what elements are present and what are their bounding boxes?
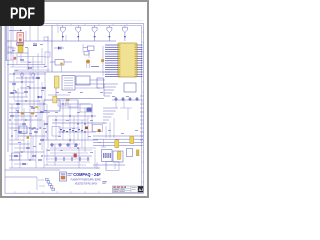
wire xyxy=(48,115,96,117)
IC U3 box xyxy=(76,76,90,85)
wire xyxy=(50,143,80,145)
wire vertical xyxy=(55,116,57,140)
wire xyxy=(9,112,50,114)
wire xyxy=(14,147,26,149)
wire vertical xyxy=(16,53,18,65)
wire xyxy=(23,108,25,152)
transistor Q7 cluster box xyxy=(50,60,72,66)
wire xyxy=(60,107,86,109)
wire vertical xyxy=(91,104,93,132)
svg-text:PLASMA/TFT POWER SUPPLY BOARD: PLASMA/TFT POWER SUPPLY BOARD xyxy=(71,178,101,181)
border grid ticks xyxy=(15,24,144,194)
wire vertical ladder stub xyxy=(105,126,107,138)
resistor ladder 1 xyxy=(104,84,118,96)
wire bus y98 xyxy=(57,98,104,100)
connector J2 bits xyxy=(46,178,55,190)
IC U7 box xyxy=(58,100,66,106)
wire xyxy=(50,147,96,149)
diode D5 (red) xyxy=(14,57,17,60)
transistor Q8 (small cup) xyxy=(20,72,24,80)
wire left vertical rail 2 xyxy=(10,26,12,60)
label text xyxy=(91,65,99,68)
wire xyxy=(115,100,117,108)
IC U5 box xyxy=(124,83,136,92)
capacitor small box 2 xyxy=(8,47,13,52)
connector J1 pin ticks (left edge) xyxy=(6,26,9,61)
svg-text:PDF: PDF xyxy=(10,6,35,23)
wire vertical xyxy=(29,25,31,41)
wire xyxy=(9,29,21,31)
regulator box VR1 xyxy=(102,150,113,162)
wire xyxy=(19,144,21,168)
resistor R12 (yellow tick) xyxy=(35,106,38,108)
wire xyxy=(44,155,92,157)
relay K1 (red box) xyxy=(17,33,24,43)
resistor ladder 2 xyxy=(103,108,118,123)
transistor Q5 (top row) xyxy=(122,25,127,41)
resistor R11 (orange) xyxy=(31,113,34,115)
wire vertical xyxy=(87,116,89,140)
wire xyxy=(20,87,46,89)
varistor RV1 (orange) xyxy=(86,60,89,63)
opto U9 (blue fill) xyxy=(87,108,92,112)
wire xyxy=(9,96,28,98)
wire xyxy=(9,92,24,94)
wire vertical xyxy=(20,53,22,60)
box U12 xyxy=(93,125,103,132)
wire vertical xyxy=(27,48,29,70)
wire xyxy=(44,164,86,166)
wire xyxy=(46,104,48,140)
wire vertical xyxy=(94,150,96,168)
wire xyxy=(9,107,20,109)
wire left vertical rail xyxy=(7,60,9,152)
wire xyxy=(33,74,35,112)
wire xyxy=(123,100,125,108)
inductor L2 (box) xyxy=(19,126,27,134)
IC U1 pin pads xyxy=(118,45,136,78)
wire vertical xyxy=(44,57,46,68)
capacitor C9 (yellow) xyxy=(53,96,57,103)
IC U13 box xyxy=(12,153,20,160)
net label text (tiny) xyxy=(102,180,107,183)
capacitor C30 (yellow) xyxy=(115,140,119,148)
wire xyxy=(48,94,70,96)
wire xyxy=(9,143,30,145)
wire xyxy=(50,152,88,154)
box U11 xyxy=(52,127,60,137)
wire xyxy=(18,135,46,137)
svg-text:AJ: AJ xyxy=(139,188,144,192)
wire xyxy=(65,35,67,41)
wire xyxy=(7,59,14,61)
schematic outer border frame xyxy=(5,24,144,194)
wire vertical xyxy=(69,104,71,148)
IC U4 box xyxy=(44,100,60,111)
wire xyxy=(20,61,42,63)
wire vertical ladder stub xyxy=(113,118,115,138)
logo tiny text lines xyxy=(68,172,73,175)
wire pin column xyxy=(102,46,104,76)
heatsink box xyxy=(106,162,119,171)
transistor Q3 (top row) xyxy=(92,25,97,41)
wire xyxy=(18,131,28,133)
IC U1 (yellow DIP) xyxy=(118,43,137,77)
capacitor C32 (yellow) xyxy=(117,152,121,160)
fuse F1 (yellow part) xyxy=(18,44,23,53)
wire xyxy=(14,163,28,165)
wire vertical xyxy=(46,148,48,166)
wire xyxy=(29,72,31,136)
wire xyxy=(43,120,45,168)
wire xyxy=(17,88,19,140)
varistor (brown dot) xyxy=(98,129,101,132)
wire stub xyxy=(105,163,107,169)
page gray border xyxy=(1,1,148,197)
inductor L2 dashes xyxy=(29,128,41,130)
wire xyxy=(86,63,88,68)
vendor logo (dark) xyxy=(138,186,143,192)
varistor RV2 (orange) xyxy=(101,59,104,62)
wire vertical xyxy=(84,108,86,152)
LED DS1 (yellow) xyxy=(60,62,63,65)
wire xyxy=(21,72,23,120)
PDF badge xyxy=(0,0,45,26)
wire xyxy=(52,122,105,124)
wire xyxy=(9,123,22,125)
wire vertical xyxy=(62,100,64,140)
junction dot xyxy=(20,30,21,31)
diode D8 (red-brown) xyxy=(85,127,88,130)
wire xyxy=(9,159,36,161)
wire vertical center rail xyxy=(51,25,53,72)
IC U1 pins xyxy=(105,45,143,77)
resistor R20 (orange) xyxy=(66,99,69,101)
wire vertical xyxy=(54,144,56,166)
wire xyxy=(11,104,13,168)
wire xyxy=(46,158,90,160)
capacitor row C20-C23 xyxy=(50,143,78,147)
wire xyxy=(9,73,46,75)
wire xyxy=(27,140,29,160)
relay K1 inner mark xyxy=(19,39,22,42)
wire xyxy=(112,99,140,101)
dash cluster xyxy=(60,129,83,132)
wire xyxy=(58,131,96,133)
wire xyxy=(90,79,105,81)
wire vertical xyxy=(47,36,49,72)
wire xyxy=(44,139,98,141)
wire xyxy=(7,52,28,54)
wire vertical xyxy=(25,31,27,41)
wire xyxy=(9,155,22,157)
wire xyxy=(5,169,60,171)
capacitor C5 box xyxy=(84,52,89,56)
wire vertical xyxy=(47,116,49,148)
wire xyxy=(35,128,37,168)
wire xyxy=(75,87,100,89)
wire xyxy=(10,66,45,68)
wire tee stub xyxy=(101,139,106,147)
wire vertical ladder stub xyxy=(109,122,111,138)
wire xyxy=(14,69,50,71)
wire vertical xyxy=(32,57,34,71)
svg-text:COMPAQ - 24F: COMPAQ - 24F xyxy=(73,172,101,178)
diode box (dark) xyxy=(17,43,23,46)
net label texts (tiny) xyxy=(12,44,138,153)
faint rule above frame xyxy=(45,20,143,22)
bus wires bottom right xyxy=(93,136,143,146)
transistor Q4 (top row) xyxy=(107,25,112,41)
wire xyxy=(7,64,45,66)
capacitor C8 (yellow) xyxy=(55,76,60,88)
wire xyxy=(9,47,16,49)
wire xyxy=(61,65,63,72)
wire vertical xyxy=(81,120,83,148)
wire mid bus y72 xyxy=(14,71,110,73)
right border dense ticks xyxy=(140,96,144,140)
wire xyxy=(9,167,40,169)
wire xyxy=(9,81,34,83)
title block cell lines xyxy=(113,186,138,193)
capacitor row C24-C28 xyxy=(56,157,88,161)
thermistor R25 (red) xyxy=(74,154,77,158)
capacitor small box 3 xyxy=(45,52,50,57)
title block marks xyxy=(113,187,116,188)
wire vertical xyxy=(36,177,38,190)
ferrite bead FB1 (orange) xyxy=(27,136,29,138)
wire xyxy=(52,119,88,121)
wire xyxy=(9,127,34,129)
resistor R10 (orange) xyxy=(21,113,24,115)
junction dots center xyxy=(55,103,92,148)
wire xyxy=(127,108,129,120)
wire xyxy=(9,103,46,105)
wire vertical xyxy=(73,116,75,144)
wire xyxy=(15,108,17,140)
wire xyxy=(14,115,34,117)
wire xyxy=(55,88,57,101)
wire stub xyxy=(96,162,98,169)
wire stub xyxy=(114,163,116,169)
capacitor C31 (yellow) xyxy=(130,136,134,143)
wire xyxy=(30,116,32,160)
IC U8 box xyxy=(68,100,78,107)
regulator box VR2 xyxy=(113,151,123,162)
schematic inner border top xyxy=(7,24,142,26)
wire xyxy=(39,100,41,128)
wire xyxy=(14,151,44,153)
wire xyxy=(38,179,44,181)
wire xyxy=(17,56,45,58)
wire vertical xyxy=(12,48,14,67)
wire xyxy=(60,103,90,105)
wire xyxy=(44,72,46,101)
capacitor C1 xyxy=(33,44,37,46)
transistor Q1 (top row) xyxy=(60,25,65,41)
wire xyxy=(14,119,42,121)
transistor Q9 (small cup) xyxy=(31,72,35,80)
IC U6 box xyxy=(97,78,104,88)
wire xyxy=(58,127,80,129)
wire xyxy=(9,139,24,141)
wire xyxy=(25,76,27,97)
svg-text:ADJUSTED FOR PSU 24F-3V: ADJUSTED FOR PSU 24F-3V xyxy=(75,183,98,186)
wire xyxy=(46,149,92,151)
title block table xyxy=(113,186,144,193)
wire xyxy=(57,25,59,33)
wire xyxy=(88,63,90,68)
IC U2 small box xyxy=(83,44,94,52)
capacitor C33 (small yellow) xyxy=(136,150,139,156)
company logo icon xyxy=(60,172,67,181)
wire xyxy=(16,77,40,79)
capacitor small box xyxy=(44,37,48,41)
wire vertical xyxy=(77,100,79,140)
wire xyxy=(5,176,37,178)
schematic inner border right xyxy=(141,25,143,191)
box U10 xyxy=(80,104,92,112)
wire xyxy=(48,161,90,163)
capacitor row right xyxy=(114,97,138,101)
wire vertical xyxy=(37,25,39,41)
wire vertical xyxy=(41,48,43,65)
regulator box VR1 inner marks xyxy=(103,153,111,158)
transformer T1 box xyxy=(62,76,75,91)
wire vertical xyxy=(12,26,14,41)
diode box D10 xyxy=(127,149,133,157)
capacitors (left grid) xyxy=(11,59,47,165)
wire xyxy=(40,167,100,169)
wire xyxy=(93,164,125,166)
diode D1 xyxy=(54,46,64,49)
wire xyxy=(41,82,43,150)
wire xyxy=(14,100,40,102)
transistor Q2 (top row) xyxy=(76,25,81,41)
wire vertical xyxy=(78,148,80,168)
wire xyxy=(37,72,39,128)
wire ladder rail xyxy=(103,84,105,96)
wire horizontal rail y41 xyxy=(7,40,116,42)
wire xyxy=(13,72,15,100)
wire vertical xyxy=(37,53,39,70)
wire xyxy=(75,83,105,85)
wire xyxy=(39,185,45,187)
junction dots xyxy=(9,73,46,160)
wire xyxy=(32,136,34,160)
transformer T1 windings xyxy=(64,78,73,88)
wire xyxy=(88,51,90,59)
wire xyxy=(120,107,132,109)
